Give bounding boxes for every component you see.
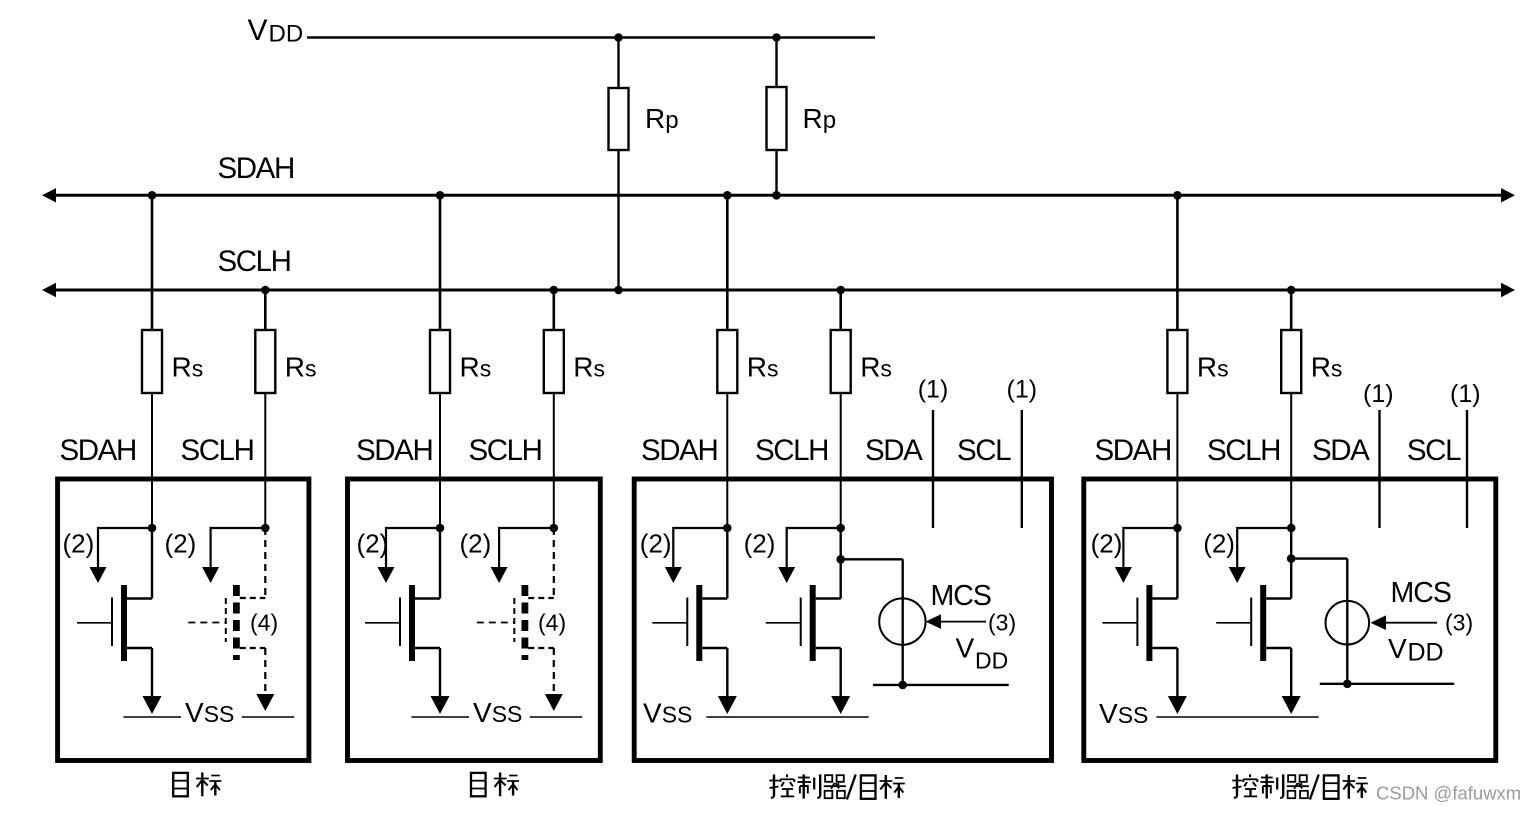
svg-text:SDAH: SDAH xyxy=(60,434,136,467)
svg-text:SCLH: SCLH xyxy=(755,434,828,467)
svg-text:DD: DD xyxy=(269,20,304,47)
svg-text:(1): (1) xyxy=(1450,380,1481,408)
svg-text:(4): (4) xyxy=(250,610,278,636)
svg-text:(2): (2) xyxy=(1091,529,1123,559)
svg-text:Rs: Rs xyxy=(860,352,892,383)
svg-text:V: V xyxy=(248,14,268,47)
svg-text:Rs: Rs xyxy=(285,352,317,383)
svg-text:SDA: SDA xyxy=(865,434,923,467)
svg-text:MCS: MCS xyxy=(931,580,991,612)
svg-text:V: V xyxy=(1388,633,1407,664)
svg-text:(2): (2) xyxy=(63,529,95,559)
svg-text:Rs: Rs xyxy=(1197,352,1229,383)
svg-text:SDA: SDA xyxy=(1312,434,1370,467)
svg-text:MCS: MCS xyxy=(1391,577,1451,609)
svg-text:DD: DD xyxy=(1408,639,1444,667)
svg-text:(3): (3) xyxy=(1445,610,1473,636)
svg-text:CSDN @fafuwxm: CSDN @fafuwxm xyxy=(1376,783,1521,804)
svg-text:(2): (2) xyxy=(640,529,672,559)
svg-text:SDAH: SDAH xyxy=(1095,434,1171,467)
svg-text:(3): (3) xyxy=(988,610,1016,636)
svg-text:SCLH: SCLH xyxy=(1207,434,1280,467)
svg-text:Rs: Rs xyxy=(1311,352,1343,383)
svg-text:SDAH: SDAH xyxy=(356,434,432,467)
svg-text:(2): (2) xyxy=(165,529,197,559)
svg-text:Rp: Rp xyxy=(803,103,837,134)
svg-text:(4): (4) xyxy=(538,610,566,636)
svg-text:SCL: SCL xyxy=(1407,434,1461,467)
svg-text:DD: DD xyxy=(975,648,1008,674)
svg-text:(2): (2) xyxy=(357,529,389,559)
svg-text:(1): (1) xyxy=(1007,376,1038,404)
svg-text:Rp: Rp xyxy=(645,103,679,134)
svg-text:SCL: SCL xyxy=(957,434,1011,467)
svg-text:SDAH: SDAH xyxy=(641,434,717,467)
svg-text:VSS: VSS xyxy=(1099,698,1148,729)
svg-text:SDAH: SDAH xyxy=(218,152,294,185)
svg-text:Rs: Rs xyxy=(747,352,779,383)
svg-text:(2): (2) xyxy=(1203,529,1235,559)
svg-text:Rs: Rs xyxy=(573,352,605,383)
svg-text:(1): (1) xyxy=(1363,380,1394,408)
svg-text:(2): (2) xyxy=(744,529,776,559)
svg-text:Rs: Rs xyxy=(172,352,204,383)
svg-text:SCLH: SCLH xyxy=(469,434,542,467)
svg-text:VSS: VSS xyxy=(185,697,234,728)
svg-text:VSS: VSS xyxy=(473,697,522,728)
svg-text:(2): (2) xyxy=(460,529,492,559)
svg-text:VSS: VSS xyxy=(643,698,692,729)
svg-text:SCLH: SCLH xyxy=(218,245,291,278)
svg-text:Rs: Rs xyxy=(460,352,492,383)
svg-text:V: V xyxy=(956,633,975,664)
svg-text:(1): (1) xyxy=(918,376,949,404)
svg-text:SCLH: SCLH xyxy=(181,434,254,467)
